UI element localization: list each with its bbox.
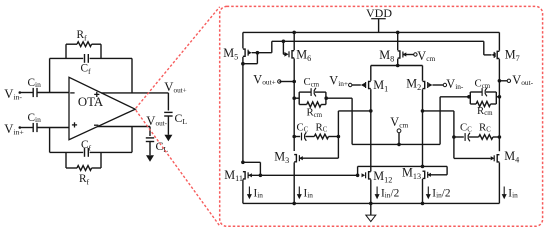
wire M1 drain link (338, 110, 370, 112)
svg-text:M3: M3 (274, 150, 289, 165)
wire M11 diode loop horizontal (243, 161, 261, 163)
wire M3 gate riser (337, 111, 339, 158)
wire Rf top-left (66, 43, 77, 45)
wire comp mid segment (right) (469, 136, 479, 138)
wire M5 diode loop horizontal (243, 63, 258, 65)
svg-text:M12: M12 (373, 169, 392, 184)
capacitor Ccm (left) (310, 88, 312, 96)
svg-text:Cin: Cin (28, 77, 42, 89)
wire Ccm branch left segment (right) (470, 91, 482, 93)
transistor M12 (369, 172, 371, 179)
M13 gate arrow (427, 173, 431, 177)
svg-text:RC: RC (479, 121, 491, 133)
red dashed zoom box (220, 6, 543, 226)
wire top feedback right riser (131, 58, 133, 93)
wire top feedback upper rail right (90, 57, 132, 59)
svg-text:M1: M1 (373, 78, 388, 93)
wire M4 gate lead (454, 157, 491, 159)
node compensation tap right (498, 135, 502, 139)
resistor Rcm (right) (476, 101, 490, 106)
node Vout+ tap (292, 80, 296, 84)
svg-text:M2: M2 (406, 77, 421, 92)
svg-text:Rf: Rf (79, 173, 90, 186)
wire stub to Ccm/Rcm box (left) (294, 97, 299, 99)
wire Ccm/Rcm box right edge (right) (495, 92, 497, 104)
transistor M4 (497, 155, 499, 162)
node comp riser junction (left) (337, 135, 341, 139)
wire bottom feedback left riser (49, 128, 51, 153)
node comp riser junction (right) (452, 135, 456, 139)
svg-text:CC: CC (297, 121, 309, 133)
wire Cin to OTA inverting input (37, 92, 69, 94)
wire Vcm rail left riser (351, 98, 353, 144)
wire Ccm branch left segment (299, 91, 311, 93)
wire M4 gate riser (453, 111, 455, 158)
M3 gate arrow (299, 156, 303, 160)
svg-text:VDD: VDD (366, 6, 392, 20)
transistor M8 (398, 51, 400, 58)
node tail current node (396, 64, 400, 68)
wire comp right segment (493, 136, 500, 138)
transistor M2 (423, 81, 425, 88)
M2 gate arrow (428, 83, 432, 88)
svg-text:M6: M6 (296, 48, 311, 63)
wire Vin- to Cin (20, 92, 33, 94)
wire M2 drain link (423, 110, 454, 112)
wire M2 source drop (422, 66, 424, 81)
wire M8 source (397, 32, 399, 50)
svg-text:Iin/2: Iin/2 (432, 187, 451, 199)
wire top feedback upper rail left (50, 57, 84, 59)
wire comp branch left segment (294, 136, 300, 138)
wire top feedback left riser (49, 58, 51, 92)
OTA positive output mark (94, 93, 99, 95)
wire M3 gate lead (299, 157, 338, 159)
transistor M1 (369, 81, 371, 88)
wire M6 drain to M3 (293, 59, 295, 152)
VDD terminal bar (371, 18, 386, 20)
current arrow Iin/2 (M13 branch) (427, 187, 429, 196)
ground (top output) (164, 135, 172, 142)
svg-text:Rcm: Rcm (307, 106, 323, 118)
wire M5 source (242, 32, 244, 48)
node Vout- tap (498, 79, 502, 83)
wire comp to riser (right) (454, 136, 464, 138)
resistor Rc (right) (479, 135, 493, 140)
wire M5 gate lead (252, 52, 272, 54)
wire M4 source (498, 163, 500, 204)
current arrow Iin/2 (M12 branch) (376, 187, 378, 196)
wire Ccm/Rcm box right edge (left) (325, 92, 327, 104)
wire Ccm branch right segment (right) (486, 91, 496, 93)
ground (transistor level) (366, 215, 376, 222)
transistor M7 (497, 51, 499, 58)
svg-text:M4: M4 (504, 149, 519, 164)
node compensation tap left (292, 135, 296, 139)
wire Vcm rail (352, 143, 440, 145)
wire OTA positive output (101, 92, 168, 94)
wire bottom feedback lower rail right (90, 151, 132, 153)
wire Ccm branch right segment (315, 91, 326, 93)
node M11 drain junction (241, 161, 245, 165)
svg-text:Vcm: Vcm (390, 115, 408, 129)
wire bottom rail (243, 202, 500, 204)
wire mirror gate bus upper (358, 165, 448, 167)
wire M6 gate lead (283, 53, 284, 55)
wire right box to output column (496, 96, 499, 98)
node Ccm/Rcm input (right) (467, 95, 471, 99)
node M5 gate-drain tie (256, 51, 260, 55)
M5 gate arrow (248, 50, 252, 55)
node M13 source on bottom rail (421, 202, 425, 206)
wire Ccm/Rcm box left edge (right) (469, 92, 471, 104)
transistor M5 (243, 49, 245, 56)
node Vin+ input terminal (19, 126, 22, 129)
terminal Vcm circle (M8 gate) (414, 53, 417, 56)
transistor M11 (243, 172, 245, 179)
wire Vout+ down to CL (167, 93, 169, 111)
svg-text:Vout+: Vout+ (164, 80, 186, 94)
wire Rcm branch left segment (right) (470, 103, 476, 105)
wire M2 gate lead (433, 84, 444, 86)
svg-text:CL: CL (175, 111, 188, 126)
OTA inverting input mark (70, 92, 74, 94)
svg-text:RC: RC (316, 121, 328, 133)
wire bottom feedback lower rail left (50, 151, 84, 153)
wire CL to ground (top output) (167, 116, 169, 135)
node M5 drain diode tap (241, 62, 245, 66)
wire Rf branch left leg (bottom) (65, 152, 67, 168)
zoom callout line upper (136, 7, 220, 108)
terminal Vin+ circle (349, 83, 352, 86)
wire M13 source (422, 179, 424, 203)
svg-text:M5: M5 (223, 46, 238, 61)
node ground stem junction (369, 202, 373, 206)
svg-text:Iin: Iin (508, 187, 518, 199)
svg-text:Vin-: Vin- (4, 87, 22, 101)
wire VDD stem (378, 19, 380, 33)
wire M1 source drop (370, 66, 372, 81)
current arrow Iin (M11 branch) (248, 187, 250, 196)
wire mirror bus riser (357, 166, 359, 175)
zoom callout line lower (136, 110, 220, 226)
wire M11 source (242, 180, 244, 204)
node M13 drain tie on bus (421, 165, 425, 169)
wire mirror gate bus lower-left (248, 174, 358, 176)
wire Ccm/Rcm box left edge (left) (298, 92, 300, 104)
node M6 gate tap on bias line (282, 40, 286, 44)
svg-text:M7: M7 (505, 48, 520, 63)
wire Vcm rail right riser (439, 97, 441, 145)
capacitor Cin (top) (32, 88, 34, 97)
M1 gate arrow (361, 83, 365, 88)
wire Rf branch left leg (top) (65, 44, 67, 58)
svg-text:Cf: Cf (81, 139, 92, 152)
terminal Vout+ circle (278, 80, 281, 83)
terminal Vcm circle (CMFB) (397, 129, 401, 133)
wire Rf branch right leg (bottom) (100, 152, 102, 168)
wire M13 gate lead (427, 174, 447, 176)
current arrow Iin (M4 branch) (503, 187, 505, 196)
M4 gate arrow (491, 156, 495, 160)
wire M1 drain column (370, 89, 372, 171)
capacitor Cf (bottom) (84, 148, 86, 157)
wire M7 gate drop (483, 41, 485, 55)
resistor Rf (top) (77, 42, 92, 47)
svg-text:Vcm: Vcm (417, 49, 435, 63)
wire Ccm/Rcm to Vcm rail (left) (326, 97, 352, 99)
svg-text:Vin+: Vin+ (329, 74, 348, 88)
M7 gate arrow (492, 53, 496, 58)
wire M1 gate lead (352, 84, 361, 86)
wire comp mid segment (left) (306, 136, 315, 138)
resistor Rc (left) (314, 134, 328, 139)
wire bias line (272, 40, 484, 42)
transistor M6 (292, 51, 294, 58)
node M1 drain junction (369, 109, 373, 113)
node M6 source on rail (292, 31, 296, 35)
svg-text:Iin: Iin (304, 187, 314, 199)
svg-text:M13: M13 (402, 166, 421, 181)
wire M8 gate lead (403, 54, 414, 56)
wire Rf bottom-left (66, 167, 77, 169)
node Ccm/Rcm output (left) (324, 96, 328, 100)
node mirror bus riser junction (356, 174, 360, 178)
wire Vout- down to CL (149, 127, 151, 137)
wire M6 gate drop (282, 41, 284, 54)
wire M7 gate lead (484, 54, 492, 56)
capacitor Cin (bottom) (32, 123, 34, 132)
capacitor Ccm (right) (481, 88, 483, 96)
svg-text:Vin-: Vin- (446, 77, 464, 91)
svg-text:Vout-: Vout- (512, 73, 533, 87)
svg-text:Cf: Cf (81, 63, 92, 76)
wire Rf top-right (92, 43, 101, 45)
wire M13 gate riser (446, 166, 448, 174)
svg-text:CC: CC (460, 121, 472, 133)
wire M7 drain to M4 (498, 59, 500, 151)
wire comp to riser (left) (329, 136, 339, 138)
node Vcm stem junction (397, 143, 401, 147)
ground (bottom output) (146, 155, 154, 162)
capacitor Cf (top) (84, 54, 86, 63)
terminal Vout- circle (507, 79, 510, 82)
wire M7 source (498, 32, 500, 50)
wire Rcm branch right segment (left) (321, 104, 326, 106)
resistor Rf (bottom) (77, 166, 92, 171)
terminal Vin- circle (443, 83, 446, 86)
OTA negative output mark (94, 124, 98, 126)
svg-text:Iin/2: Iin/2 (381, 187, 400, 199)
wire M5 diode loop riser (256, 53, 258, 64)
node right box output junction (498, 95, 502, 99)
svg-text:Ccm: Ccm (304, 76, 320, 88)
wire M3 source (293, 162, 295, 203)
transistor M3 (294, 155, 296, 162)
wire M6 source (293, 32, 295, 50)
wire bottom feedback right riser (131, 127, 133, 153)
svg-text:M11: M11 (224, 168, 243, 183)
node M3 source on bottom rail (292, 202, 296, 206)
wire bias riser at M5 (271, 41, 273, 52)
node M8 source on rail (396, 31, 400, 35)
capacitor Cc (left) (301, 133, 303, 141)
wire M8 drain (397, 59, 399, 66)
wire OTA negative output (98, 126, 151, 128)
wire M11 diode loop riser (259, 162, 261, 175)
capacitor Cc (right) (464, 133, 466, 141)
M6 gate arrow (284, 52, 288, 57)
wire Rf branch right leg (top) (100, 44, 102, 58)
wire VDD top rail (243, 31, 500, 33)
wire M5 drain (242, 57, 244, 162)
wire CL to ground (bottom output) (149, 142, 151, 156)
wire Vcm riser to right box (440, 96, 469, 98)
wire Vout+ lead (279, 81, 294, 83)
wire Rcm branch right segment (right) (491, 103, 497, 105)
wire M12 source (370, 180, 372, 204)
node M11 gate-drain tie (259, 174, 263, 178)
M12 gate arrow (362, 173, 366, 177)
wire ground stem (370, 203, 372, 215)
wire M2 drain column (422, 89, 424, 166)
resistor Rcm (left) (307, 102, 321, 107)
capacitor CL (bottom output) (146, 137, 154, 139)
svg-text:Ccm: Ccm (475, 77, 491, 89)
node Vin- input terminal (19, 91, 22, 94)
current arrow Iin (M3 branch) (298, 187, 300, 196)
wire Rf bottom-right (92, 167, 101, 169)
svg-text:Iin: Iin (254, 187, 264, 199)
op-amp OTA triangle (69, 77, 135, 139)
OTA noninverting input mark (72, 124, 77, 126)
node CM network left junction (292, 96, 296, 100)
capacitor CL (top output) (164, 111, 172, 113)
svg-text:Vin+: Vin+ (4, 122, 24, 136)
wire Cin to OTA noninverting input (37, 127, 69, 129)
svg-text:Cin: Cin (28, 112, 42, 124)
M8 gate arrow (403, 52, 407, 56)
M11 gate arrow (248, 173, 252, 177)
svg-text:M8: M8 (379, 48, 394, 63)
transistor M13 (423, 171, 425, 178)
wire diff pair source bar (371, 65, 423, 67)
wire Rcm branch left segment (left) (299, 104, 307, 106)
wire Vout- lead (499, 80, 507, 82)
node M2 drain junction (421, 109, 425, 113)
svg-text:Rf: Rf (77, 29, 88, 42)
wire Vin+ to Cin (20, 127, 33, 129)
wire Vcm stem (398, 133, 400, 145)
svg-text:Vout+: Vout+ (253, 72, 276, 86)
svg-text:OTA: OTA (78, 95, 104, 109)
